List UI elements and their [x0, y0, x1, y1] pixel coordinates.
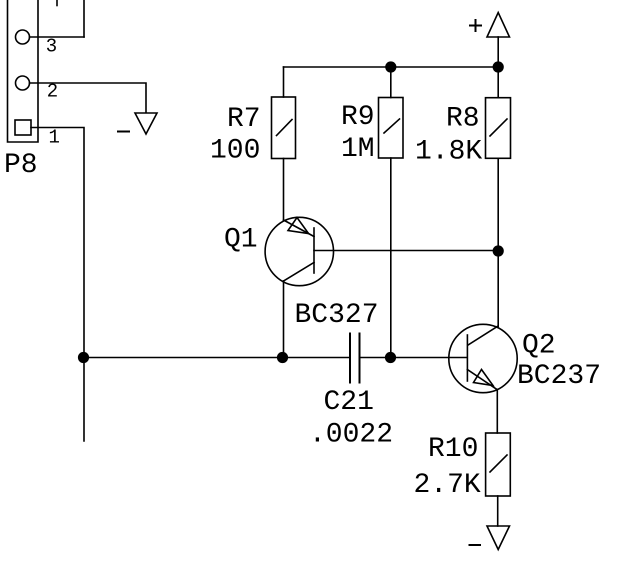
resistor R7	[272, 97, 296, 159]
wire Q1 base to junction	[314, 250, 498, 252]
bus wire left of C21	[84, 357, 350, 359]
transistor Q2 (NPN)	[449, 324, 517, 392]
svg-text:R7: R7	[227, 104, 261, 135]
svg-text:C21: C21	[324, 387, 374, 418]
P8 pin 1	[15, 120, 31, 135]
svg-text:100: 100	[210, 136, 260, 167]
svg-text:Q1: Q1	[224, 225, 258, 256]
svg-text:.0022: .0022	[309, 420, 393, 451]
ground symbol	[135, 113, 157, 134]
P8 pin 4 wire (cut off at top)	[57, 0, 84, 37]
P8 pin 3	[16, 30, 30, 44]
wire top bus to R7	[283, 67, 285, 97]
minus sign	[470, 544, 481, 546]
resistor R10	[486, 433, 511, 496]
capacitor C21	[350, 334, 360, 383]
svg-text:R9: R9	[341, 102, 375, 133]
wire Q1 collector down to bus	[283, 281, 285, 358]
resistor R9	[379, 98, 404, 159]
wire pin 2 to ground	[30, 83, 147, 113]
wire R9 down to bus	[390, 158, 392, 358]
junction dot R9 top	[385, 61, 396, 72]
wire pin 3	[30, 36, 85, 38]
svg-text:P8: P8	[4, 150, 38, 181]
svg-text:R10: R10	[428, 434, 478, 465]
top bus wire	[284, 66, 499, 68]
junction dot Q1 collector on bus	[277, 352, 288, 363]
svg-text:1: 1	[49, 127, 60, 149]
connector P8 body	[8, 0, 39, 142]
svg-text:2.7K: 2.7K	[414, 470, 481, 501]
wire plus to top bus	[497, 37, 499, 67]
minus supply symbol	[487, 526, 510, 550]
wire top bus to R9	[390, 67, 392, 98]
svg-text:BC327: BC327	[295, 300, 379, 331]
wire junction down to Q2 collector	[497, 251, 499, 327]
svg-text:3: 3	[46, 36, 57, 58]
svg-text:1.8K: 1.8K	[415, 137, 482, 168]
minus label at ground	[118, 131, 129, 133]
junction dot R9 bottom on bus	[385, 352, 396, 363]
P8 pin 2	[16, 76, 30, 90]
transistor Q1 (PNP)	[265, 217, 333, 285]
junction dot bus left	[78, 352, 89, 363]
plus supply symbol	[487, 13, 510, 38]
svg-text:BC237: BC237	[517, 361, 601, 392]
bus wire right of C21 to Q2 base	[360, 357, 468, 359]
wire pin 1 down to bus	[31, 128, 84, 442]
wire Q2 emitter to R10	[496, 390, 498, 434]
plus sign	[470, 20, 481, 31]
resistor R8	[486, 98, 511, 159]
svg-text:Q2: Q2	[522, 331, 556, 362]
svg-text:2: 2	[47, 81, 58, 103]
svg-text:R8: R8	[446, 104, 480, 135]
wire R7 to Q1 emitter	[283, 159, 285, 221]
wire top bus to R8	[497, 67, 499, 98]
wire R10 to minus supply	[497, 496, 499, 526]
svg-text:1M: 1M	[341, 134, 375, 165]
junction dot Q1 base / R8 / Q2 collector	[493, 245, 504, 256]
wire R8 down to junction	[497, 158, 499, 251]
junction dot R8 top	[493, 61, 504, 72]
